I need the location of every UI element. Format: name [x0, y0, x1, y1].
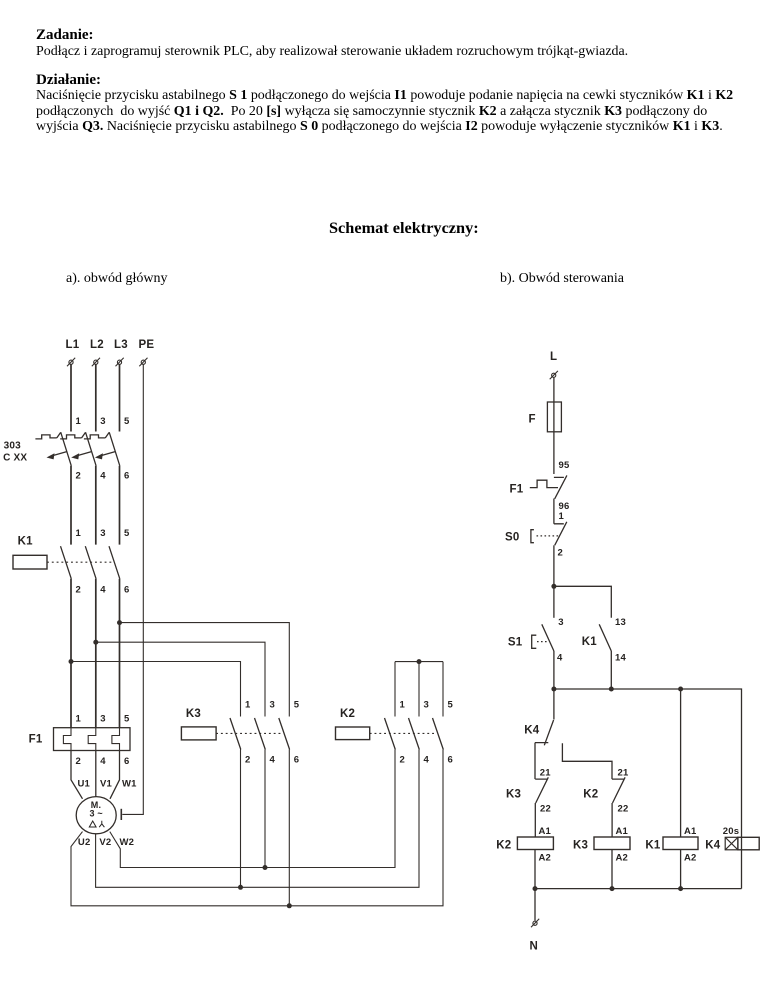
svg-text:4: 4 — [100, 471, 106, 482]
svg-text:21: 21 — [540, 768, 551, 779]
svg-text:S0: S0 — [505, 532, 519, 544]
svg-text:V1: V1 — [100, 779, 113, 790]
svg-text:1: 1 — [400, 700, 406, 711]
svg-text:20s: 20s — [723, 826, 739, 837]
svg-text:2: 2 — [76, 585, 81, 596]
svg-text:22: 22 — [540, 804, 551, 815]
svg-text:5: 5 — [124, 528, 130, 539]
svg-text:2: 2 — [76, 756, 81, 767]
svg-text:13: 13 — [615, 617, 626, 628]
svg-text:22: 22 — [618, 804, 629, 815]
svg-text:C XX: C XX — [3, 453, 27, 464]
svg-text:5: 5 — [124, 714, 130, 725]
svg-text:3 ~: 3 ~ — [90, 809, 103, 819]
svg-text:A2: A2 — [616, 853, 629, 864]
svg-text:K3: K3 — [573, 840, 588, 852]
svg-text:1: 1 — [76, 714, 82, 725]
svg-text:5: 5 — [294, 700, 300, 711]
svg-text:4: 4 — [270, 755, 276, 766]
svg-text:U1: U1 — [78, 779, 91, 790]
svg-text:A2: A2 — [684, 853, 697, 864]
svg-text:A1: A1 — [684, 826, 697, 837]
svg-text:F: F — [529, 414, 536, 426]
svg-text:L2: L2 — [90, 339, 104, 351]
svg-text:3: 3 — [424, 700, 429, 711]
svg-text:N: N — [530, 941, 539, 953]
svg-text:2: 2 — [76, 471, 81, 482]
svg-text:3: 3 — [100, 714, 105, 725]
svg-text:21: 21 — [618, 768, 629, 779]
svg-text:PE: PE — [139, 339, 155, 351]
svg-text:W1: W1 — [122, 779, 137, 790]
svg-text:14: 14 — [615, 653, 626, 664]
svg-text:2: 2 — [558, 548, 563, 559]
svg-text:2: 2 — [400, 755, 405, 766]
svg-text:4: 4 — [424, 755, 430, 766]
svg-text:L: L — [550, 351, 557, 363]
svg-text:A1: A1 — [539, 826, 552, 837]
svg-text:4: 4 — [100, 756, 106, 767]
svg-text:S1: S1 — [508, 637, 523, 649]
svg-text:6: 6 — [294, 755, 299, 766]
svg-text:K1: K1 — [18, 536, 34, 548]
svg-text:6: 6 — [124, 471, 129, 482]
svg-text:W2: W2 — [120, 837, 135, 848]
svg-text:K2: K2 — [340, 708, 355, 720]
svg-text:3: 3 — [558, 617, 563, 628]
svg-text:K1: K1 — [645, 840, 661, 852]
svg-text:V2: V2 — [99, 837, 111, 848]
svg-text:K3: K3 — [186, 708, 201, 720]
svg-text:1: 1 — [559, 511, 565, 522]
svg-text:3: 3 — [100, 528, 105, 539]
svg-text:5: 5 — [448, 700, 454, 711]
svg-text:F1: F1 — [510, 484, 524, 496]
svg-text:2: 2 — [245, 755, 250, 766]
svg-text:A1: A1 — [616, 826, 629, 837]
svg-text:K4: K4 — [705, 840, 721, 852]
svg-text:303: 303 — [4, 441, 22, 452]
svg-text:F1: F1 — [29, 734, 43, 746]
svg-text:1: 1 — [76, 528, 82, 539]
svg-text:K2: K2 — [496, 840, 511, 852]
svg-text:3: 3 — [270, 700, 275, 711]
svg-text:1: 1 — [76, 416, 82, 427]
svg-text:6: 6 — [124, 585, 129, 596]
svg-text:K2: K2 — [583, 789, 598, 801]
svg-text:U2: U2 — [78, 837, 91, 848]
svg-text:95: 95 — [559, 460, 570, 471]
svg-text:K4: K4 — [524, 725, 540, 737]
svg-text:5: 5 — [124, 416, 130, 427]
svg-text:A2: A2 — [539, 853, 552, 864]
svg-text:1: 1 — [245, 700, 251, 711]
svg-text:L3: L3 — [114, 339, 128, 351]
svg-text:K1: K1 — [582, 636, 598, 648]
svg-text:4: 4 — [100, 585, 106, 596]
svg-text:L1: L1 — [66, 339, 80, 351]
svg-text:4: 4 — [557, 653, 563, 664]
svg-text:6: 6 — [124, 756, 129, 767]
svg-text:3: 3 — [100, 416, 105, 427]
svg-text:6: 6 — [448, 755, 453, 766]
svg-text:K3: K3 — [506, 789, 521, 801]
